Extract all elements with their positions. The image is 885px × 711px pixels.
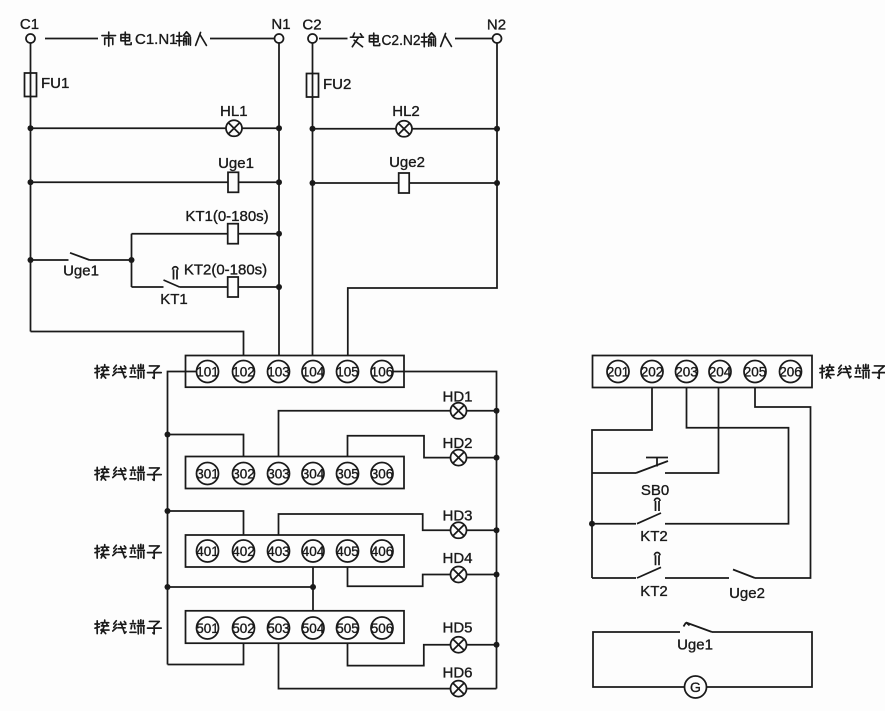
wire N1 vertical [278,43,280,356]
svg-text:HD6: HD6 [442,665,472,682]
generator G [685,676,707,698]
contact KT2 lower (delay NO) [637,553,668,600]
node dot [165,432,171,438]
svg-text:202: 202 [641,365,664,380]
wire bus to 404/504 link [168,586,314,588]
wire 503 to HD6 [279,643,497,688]
node dot [276,231,282,237]
svg-text:N2: N2 [487,17,506,34]
svg-text:103: 103 [267,365,290,380]
terminal C2 [302,17,321,44]
wire 101 to left bus [168,372,197,665]
svg-text:304: 304 [302,467,325,482]
wire to N1 [210,38,274,40]
wire N2 vertical [348,43,497,356]
wire Uge2 to 205 [755,388,811,579]
svg-text:106: 106 [371,365,394,380]
svg-text:KT2: KT2 [640,583,668,600]
generator loop right [707,632,813,687]
svg-text:306: 306 [371,467,394,482]
svg-text:HD4: HD4 [442,550,472,567]
wire 303 to HD1 [279,411,497,457]
svg-text:404: 404 [302,544,325,559]
node dot [28,125,34,131]
label 接线端子 (block 2) [95,466,161,480]
svg-text:Uge2: Uge2 [389,154,425,171]
wire between contacts [665,577,729,579]
coil Uge2 [389,154,425,193]
node dot [276,179,282,185]
node dot [165,584,171,590]
node dot [494,408,500,414]
svg-text:N1: N1 [271,16,290,33]
lamp HD3 [442,508,472,539]
terminal block 501-506 [186,611,405,643]
terminal C1 [20,16,39,43]
svg-text:205: 205 [744,365,767,380]
node dot [589,521,595,527]
terminal block 201-206 [593,356,813,388]
node dot [28,179,34,185]
svg-text:501: 501 [196,621,219,636]
terminal block 301-306 [186,457,405,489]
node label 发电C2.N2输入 [350,32,451,49]
node dot [276,125,282,131]
node dot [494,126,500,132]
label 接线端子 (block 1) [95,364,161,378]
svg-text:406: 406 [371,544,394,559]
wire bus to 302 [168,435,244,457]
svg-text:KT1(0-180s): KT1(0-180s) [185,208,268,225]
wire Uge2 rail [313,182,498,184]
node dot [165,508,171,514]
svg-text:FU2: FU2 [323,76,351,93]
svg-text:KT1: KT1 [160,291,188,308]
svg-text:HD2: HD2 [442,435,472,452]
coil KT2 [184,262,267,298]
wire HL1 rail [31,127,280,129]
svg-text:HD5: HD5 [442,620,472,637]
lamp HL2 [392,103,420,137]
svg-text:506: 506 [371,621,394,636]
wire HL2 rail [313,128,498,130]
label 接线端子 (block 5) [820,364,885,378]
svg-text:104: 104 [302,365,325,380]
svg-text:FU1: FU1 [41,75,69,92]
node dot [494,572,500,578]
svg-text:KT2(0-180s): KT2(0-180s) [184,262,267,279]
svg-text:206: 206 [779,365,802,380]
svg-text:301: 301 [196,467,219,482]
node dot [129,257,135,263]
svg-text:KT2: KT2 [640,528,668,545]
svg-text:C2: C2 [302,17,321,34]
contact Uge1 (NO) [31,253,132,280]
svg-text:C1: C1 [20,16,39,33]
wire bus to 402 [168,511,244,535]
lamp HD1 [442,389,472,419]
svg-text:102: 102 [232,365,255,380]
wire to N2 [455,38,492,40]
wire KT2 rail right [180,286,280,288]
fuse FU1 [25,73,70,97]
svg-text:SB0: SB0 [641,482,669,499]
wire 505 to HD5 [348,643,497,665]
svg-text:Uge1: Uge1 [63,263,99,280]
svg-text:Uge1: Uge1 [677,637,713,654]
svg-text:HL1: HL1 [220,103,248,120]
contact Uge1 (NO) [677,623,713,654]
wire bottom branch left [592,577,636,579]
svg-text:503: 503 [267,621,290,636]
pushbutton SB0 (NC) [636,458,669,500]
node dot [310,126,316,132]
svg-text:G: G [690,679,701,695]
svg-text:303: 303 [267,467,290,482]
svg-text:302: 302 [232,467,255,482]
node dot [310,584,316,590]
node dot [28,257,34,263]
lamp HD6 [442,665,472,697]
wire SB0 branch left [592,472,636,474]
terminal block 401-406 [186,535,405,567]
node dot [494,455,500,461]
terminal block 101-106 [186,356,405,388]
wire KT2 rail [132,286,164,288]
wire KT1-KT2 vertical [131,234,133,287]
contact KT2 (delay NO) [637,498,668,545]
svg-text:105: 105 [336,365,359,380]
wire 404 to 504 [312,567,314,611]
svg-text:101: 101 [196,365,219,380]
terminal N2 [487,17,506,44]
terminal N1 [271,16,290,43]
wire 405 to HD4 [348,567,497,586]
node dot [276,284,282,290]
svg-text:C2.N2: C2.N2 [382,32,421,49]
wire KT1 rail [132,233,280,235]
wire C1 vertical [30,43,32,332]
svg-text:C1.N1: C1.N1 [135,31,178,48]
svg-text:HL2: HL2 [392,103,420,120]
node dot [494,180,500,186]
wire 403 to HD3 [279,514,497,535]
contact Uge2 (NO) [729,570,765,603]
svg-text:HD3: HD3 [442,508,472,525]
svg-text:401: 401 [196,544,219,559]
wire KT2 branch left [592,523,636,525]
node dot [494,642,500,648]
coil KT1 [185,208,268,244]
svg-text:405: 405 [336,544,359,559]
fuse FU2 [307,74,352,98]
wire 202 to left bus [592,388,652,579]
wire C2 dash [319,38,348,40]
lamp HD2 [442,435,472,466]
contact KT1 (delay NO) [160,267,188,308]
wire Uge1 rail [31,181,280,183]
svg-text:505: 505 [336,621,359,636]
node dot [494,527,500,533]
wire bottom rail to 102 [31,332,244,356]
svg-text:Uge1: Uge1 [218,155,254,172]
wire SB0 to 204 [665,388,719,474]
svg-text:403: 403 [267,544,290,559]
wire KT2 branch to 203 [665,388,789,524]
svg-text:402: 402 [232,544,255,559]
svg-text:305: 305 [336,467,359,482]
wire C1 top dash [45,38,98,40]
wire bus to 502 bottom [168,643,244,664]
svg-text:502: 502 [232,621,255,636]
svg-text:HD1: HD1 [442,389,472,406]
generator loop wires [593,632,685,687]
svg-text:203: 203 [675,365,698,380]
wire 106 to HD bus [393,372,497,689]
lamp HL1 [220,103,248,136]
lamp HD5 [442,620,472,653]
svg-text:504: 504 [302,621,325,636]
node label 市电C1.N1输入 [102,31,207,48]
node dot [310,180,316,186]
wire 305 to HD2 [348,436,497,458]
wire C2 vertical [312,43,314,356]
label 接线端子 (block 4) [95,620,161,634]
coil Uge1 [218,155,254,192]
svg-text:Uge2: Uge2 [729,585,765,602]
svg-text:204: 204 [709,365,732,380]
svg-text:201: 201 [607,365,630,380]
label 接线端子 (block 3) [95,544,161,558]
lamp HD4 [442,550,472,583]
